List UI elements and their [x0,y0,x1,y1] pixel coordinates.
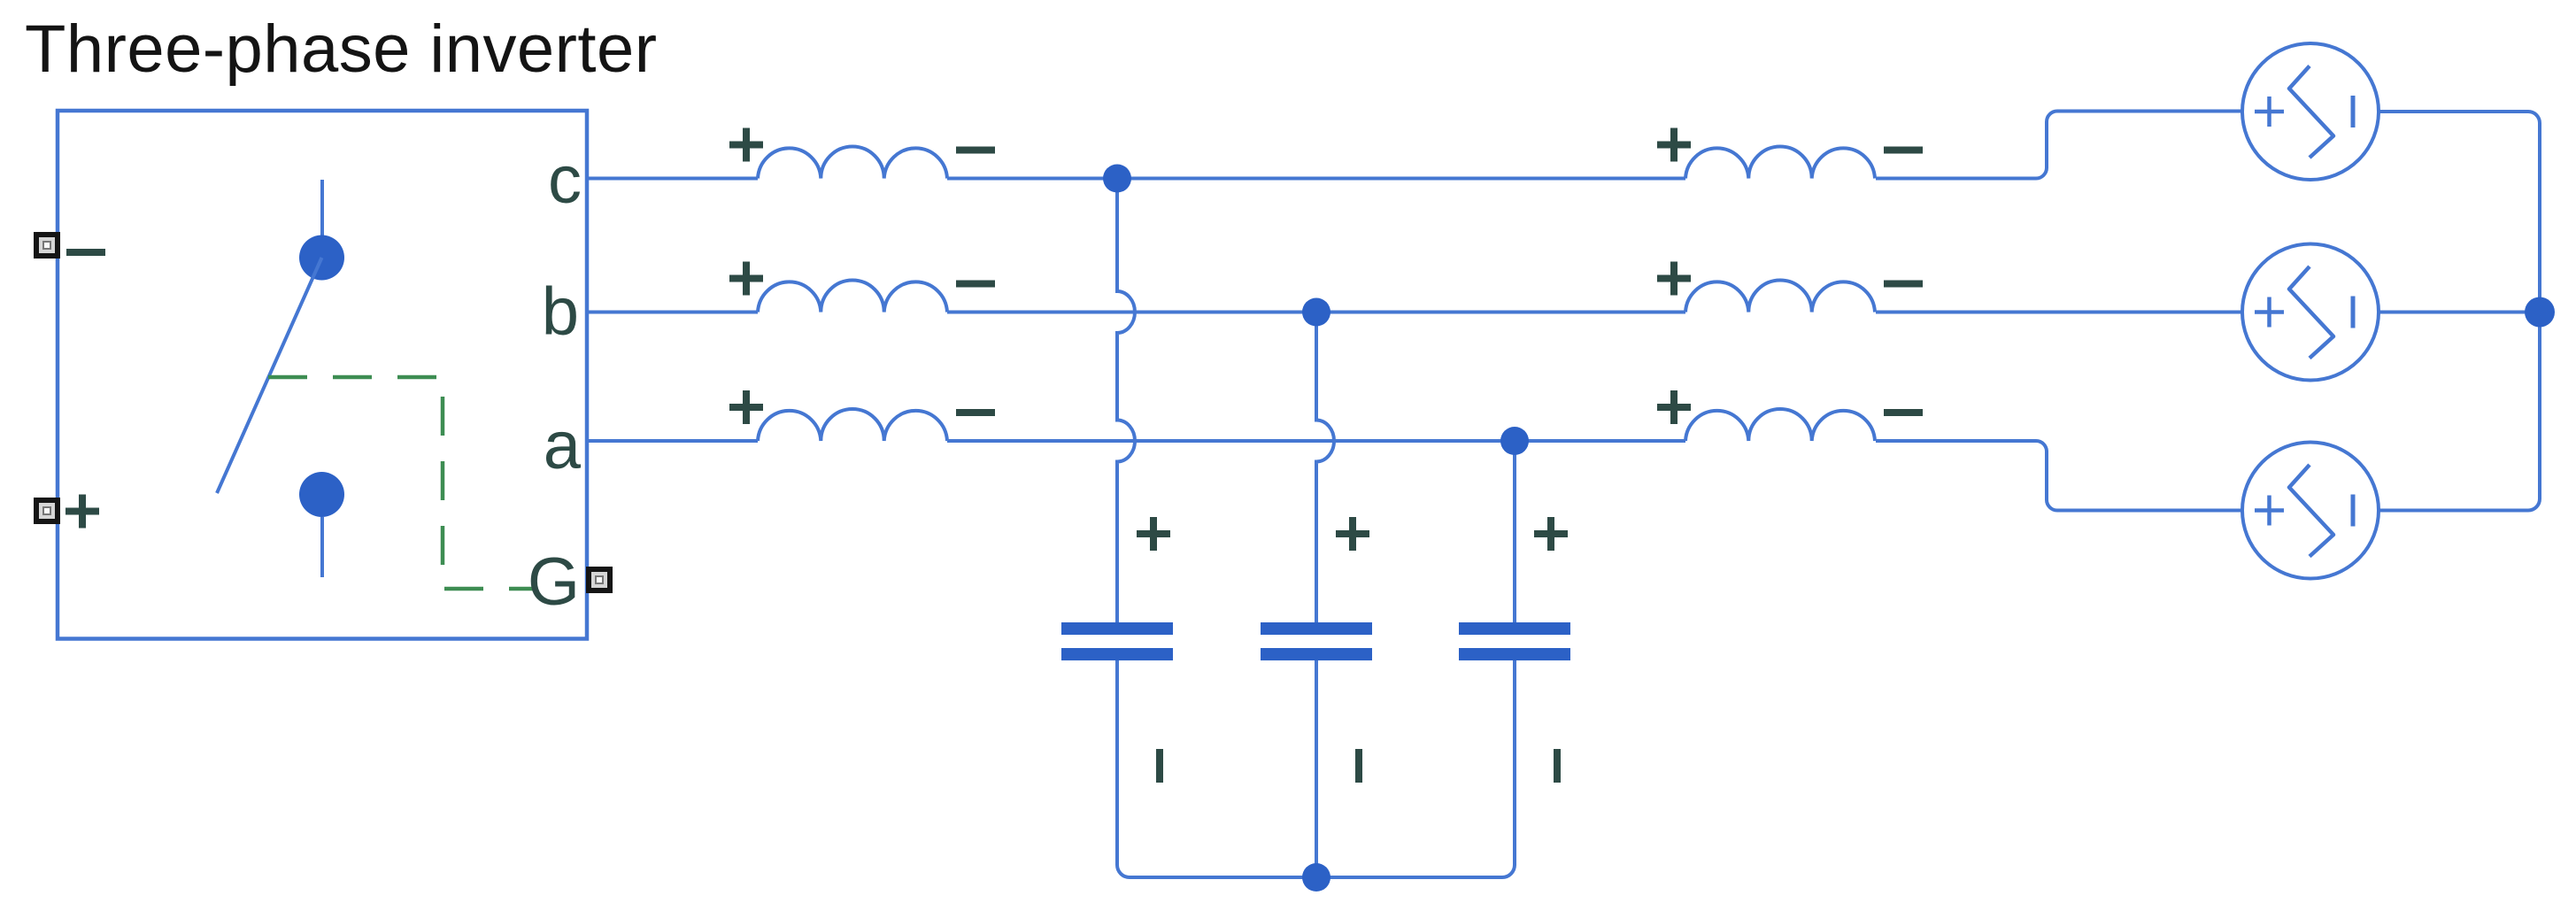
AC voltage source V2 (phase b) [2242,244,2379,381]
node bus junction [2525,297,2555,328]
inductor L3 (phase a filter) [758,409,947,441]
wire: phase c from L1 through node to L4 [947,177,1685,181]
label − rotated (C1 bottom) [1156,749,1163,783]
wire: switch arm [217,258,322,493]
node junction phase a [1500,427,1529,455]
gate dashed control line to G [268,377,533,589]
label + (L5 left) [1657,262,1691,296]
label + (L4 left) [1657,128,1691,162]
node switch upper contact [299,235,344,281]
wire: phase b from L2 through node to L5 [947,311,1685,314]
port square − (DC negative) [36,235,58,256]
port square + (DC positive) [36,500,58,521]
wire: phase a branch down to capacitor C3 [1513,441,1516,622]
label − (L2 right) [956,281,995,288]
wire: C3 bottom to neutral rail [1316,660,1515,877]
svg-text:a: a [544,408,582,483]
wire: phase c from block to filter inductor [587,177,758,181]
capacitor C2 plates [1261,622,1372,660]
wire: phase b branch down to capacitor C2 (hops over a) [1316,313,1334,623]
wire: phase a jog down to source V3 [1876,441,2242,511]
wire: phase b to source V2 [1876,311,2242,314]
wire: phase c branch down to capacitor C1 (hops over b and a) [1117,179,1135,623]
svg-text:G: G [528,544,580,620]
label + (L3 left) [729,390,763,424]
label + (C3 top) [1534,517,1568,551]
wire: phase a from block to filter inductor [587,439,758,443]
label + (L1 left) [729,128,763,162]
node switch lower contact [299,472,344,517]
svg-text:c: c [548,143,582,218]
node neutral rail junction [1302,863,1330,891]
label + (C1 top) [1137,517,1170,551]
label + (L2 left) [729,262,763,296]
capacitor C3 plates [1459,622,1570,660]
port square G (gate) [589,569,610,590]
label − (L6 right) [1884,409,1923,416]
wire: C1 bottom to neutral rail [1117,660,1316,877]
inductor L1 (phase c filter) [758,147,947,179]
label − (L5 right) [1884,281,1923,288]
wire: phase a from L3 through node to L6 [947,439,1685,443]
capacitor C1 plates [1061,622,1173,660]
wire: switch bottom stem [320,517,324,577]
label − (DC negative terminal) [66,249,105,256]
node junction phase b [1302,298,1330,327]
label − (L3 right) [956,409,995,416]
label − rotated (C2 bottom) [1355,749,1362,783]
label − (L1 right) [956,147,995,154]
wire: C2 bottom to neutral rail [1315,660,1318,877]
wire: switch top stem [320,180,324,235]
three-phase inverter block outline [58,111,587,639]
label + (C2 top) [1336,517,1369,551]
node junction phase c [1103,165,1131,193]
inductor L2 (phase b filter) [758,281,947,313]
svg-text:Three-phase inverter: Three-phase inverter [25,12,657,87]
AC voltage source V1 (phase c) [2242,43,2379,180]
wire: V2 right terminal to bus [2379,311,2540,314]
inductor L4 (phase c grid side) [1685,147,1875,179]
wire: phase b from block to filter inductor [587,311,758,314]
wire: right bus connecting sources [2379,112,2540,511]
inductor L6 (phase a grid side) [1685,409,1875,441]
wire: phase c jog up to source V1 [1876,112,2242,179]
label − (L4 right) [1884,147,1923,154]
label + (L6 left) [1657,390,1691,424]
svg-text:b: b [542,274,579,350]
label − rotated (C3 bottom) [1554,749,1561,783]
AC voltage source V3 (phase a) [2242,443,2379,579]
label + (DC positive terminal) [66,495,99,529]
inductor L5 (phase b grid side) [1685,281,1875,313]
